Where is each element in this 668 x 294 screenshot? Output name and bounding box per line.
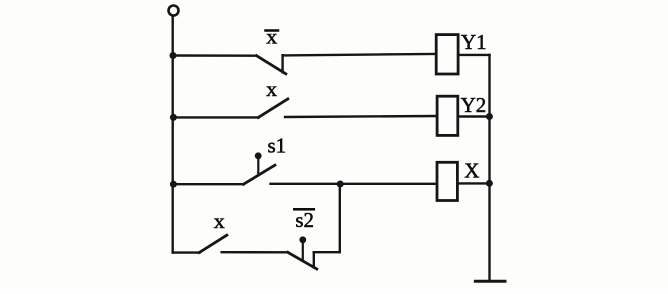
coil X — [437, 162, 457, 200]
label s2-bar overline — [293, 208, 315, 210]
contact x bottom blade (NO) — [199, 235, 227, 252]
node Y2 rail junction — [486, 113, 493, 120]
svg-text:X: X — [464, 159, 479, 183]
contact x blade (NO) — [258, 99, 288, 118]
wire rung1 right — [283, 54, 437, 56]
contact s1 blade (NO) — [244, 165, 275, 184]
svg-text:s1: s1 — [268, 133, 287, 157]
contact s1 button stem — [257, 158, 259, 175]
wire right rail — [488, 55, 490, 281]
wire rung2 right — [285, 116, 437, 117]
label x-bar overline — [265, 30, 280, 32]
wire bottom middle — [222, 251, 288, 254]
contact s2-bar button stem — [302, 242, 304, 261]
node rung3 left — [170, 181, 177, 188]
wire branch vertical — [339, 184, 341, 252]
svg-text:s2: s2 — [295, 208, 314, 232]
contact s2-bar fixed tick — [313, 252, 315, 267]
terminal circle — [169, 6, 179, 16]
contact s2-bar blade (NC) — [288, 252, 317, 269]
wire rung2 left — [173, 116, 259, 118]
svg-text:x: x — [266, 25, 278, 49]
svg-text:x: x — [214, 209, 226, 233]
wire Y1 to right rail — [458, 54, 489, 56]
contact s1 button knob — [255, 152, 262, 159]
node X rail junction — [486, 180, 493, 187]
contact x-bar fixed tick — [281, 55, 283, 72]
wire rung1 left — [173, 54, 257, 57]
svg-text:Y2: Y2 — [461, 93, 487, 117]
contact x-bar blade (NC) — [257, 56, 286, 74]
wire bottom right — [314, 251, 340, 253]
node rung3 branch junction — [337, 181, 344, 188]
node rung2 left — [170, 114, 177, 121]
ground bar — [475, 280, 505, 283]
wire rung3 right — [271, 183, 438, 185]
wire left rail — [171, 16, 173, 253]
wire rung3 left — [173, 183, 244, 185]
coil Y2 — [437, 96, 458, 135]
contact s2-bar button knob — [299, 236, 306, 243]
coil Y1 — [436, 35, 458, 74]
wire Y2 to right rail — [458, 115, 490, 117]
wire X to right rail — [457, 182, 489, 184]
svg-text:Y1: Y1 — [461, 30, 487, 54]
wire bottom-left corner — [173, 251, 200, 253]
svg-text:x: x — [266, 77, 278, 101]
node rung1 left — [170, 52, 177, 59]
